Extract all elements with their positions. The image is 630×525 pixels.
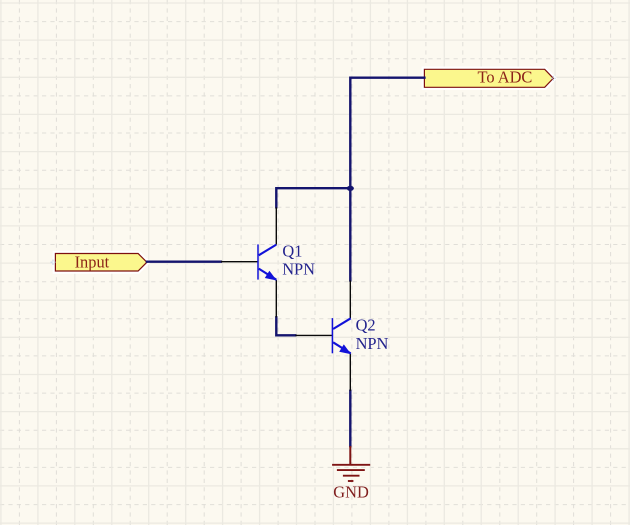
svg-text:To ADC: To ADC [478,67,533,86]
svg-text:Input: Input [75,252,110,271]
svg-text:Q1: Q1 [282,242,302,261]
svg-text:Q2: Q2 [356,316,376,335]
svg-text:NPN: NPN [282,260,315,279]
svg-text:GND: GND [333,482,369,501]
svg-text:NPN: NPN [356,334,389,353]
